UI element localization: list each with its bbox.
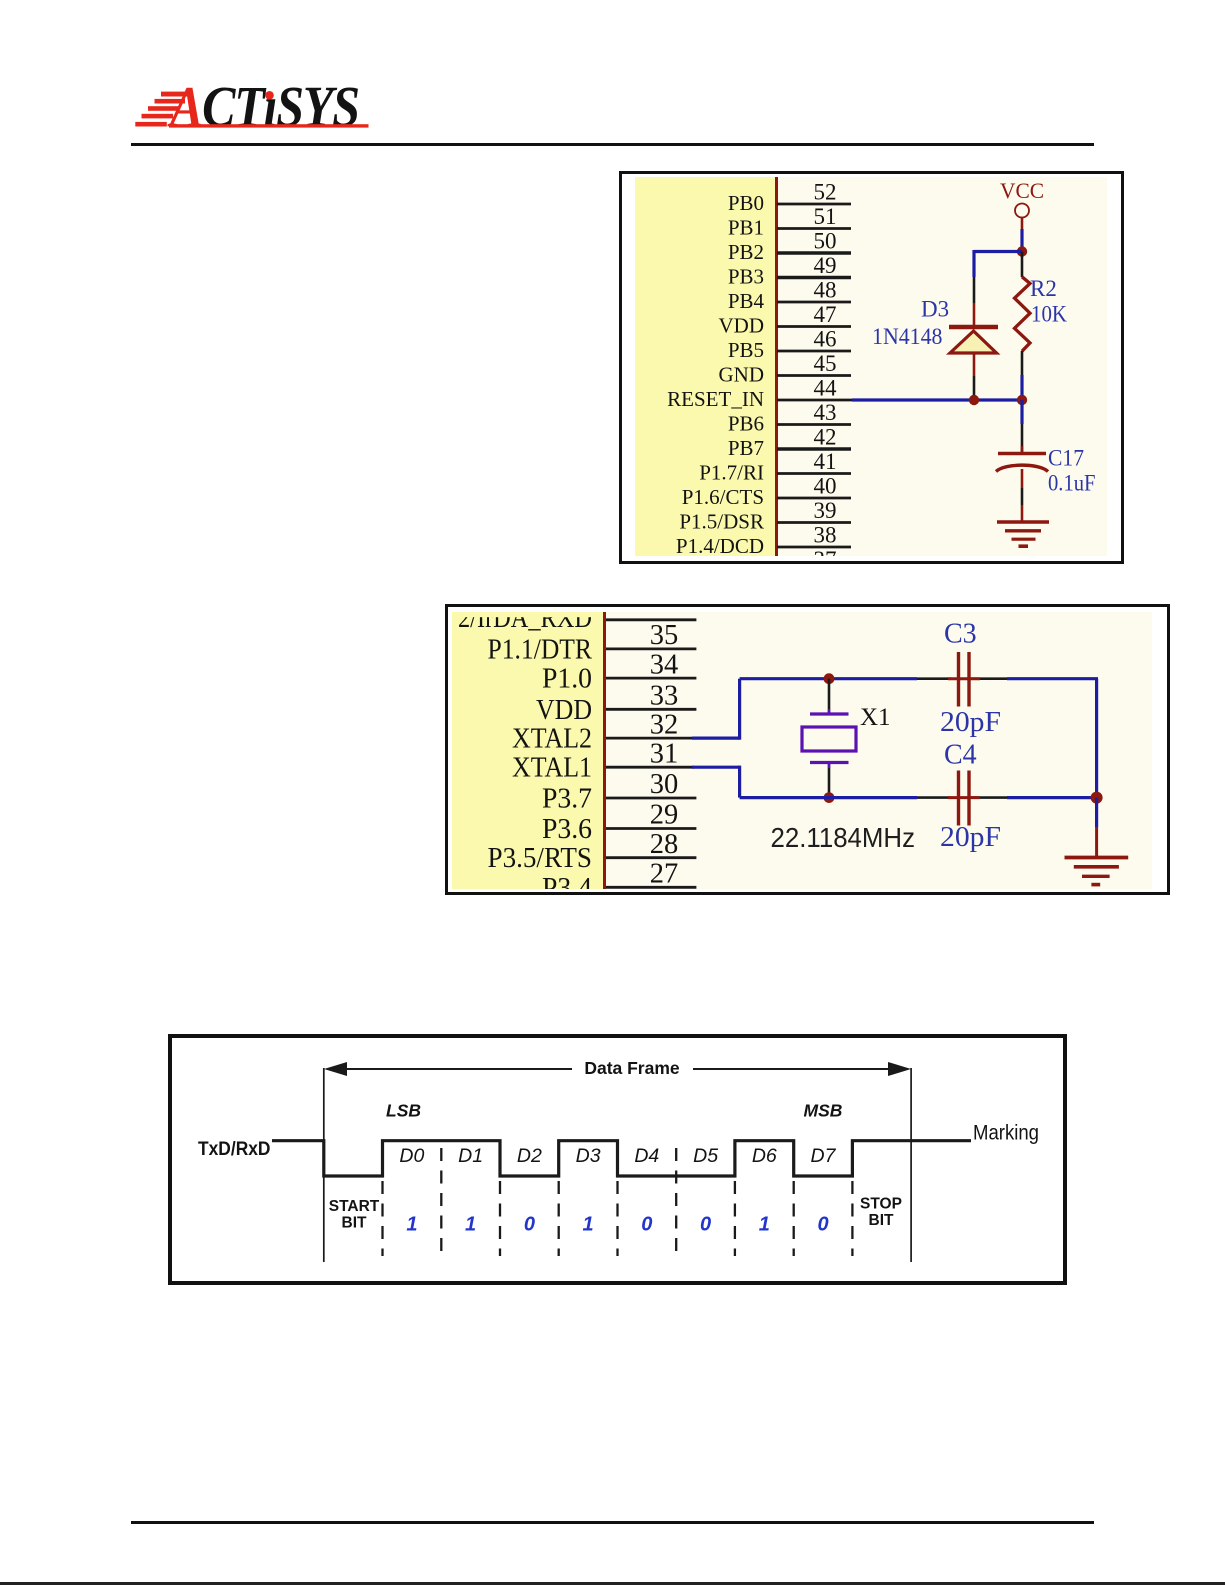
bit boundary dash D4/D5: [675, 1148, 677, 1256]
svg-text:10K: 10K: [1031, 302, 1067, 327]
svg-text:0: 0: [700, 1214, 711, 1236]
svg-text:PB3: PB3: [728, 265, 764, 289]
svg-text:29: 29: [650, 800, 679, 831]
svg-text:PB4: PB4: [728, 289, 765, 313]
footer rule: [131, 1521, 1094, 1524]
svg-text:20pF: 20pF: [940, 707, 1001, 738]
pin P1.6/CTS (40): [682, 474, 851, 510]
svg-text:1: 1: [406, 1214, 417, 1236]
pin P3.4 (27, clipped): [542, 859, 696, 904]
svg-text:C4: C4: [944, 740, 977, 771]
svg-text:0: 0: [641, 1214, 652, 1236]
svg-text:42: 42: [814, 425, 837, 450]
crystal X1 top lead: [828, 679, 831, 714]
svg-text:PB1: PB1: [728, 216, 764, 240]
label STOP BIT: [860, 1196, 902, 1230]
pin P1.2/IrDA_RXD (36, clipped): [458, 603, 696, 634]
wire VCC node to diode branch: [974, 250, 1022, 327]
diode D3 cathode bar: [949, 325, 998, 330]
pin P1.7/RI (41): [699, 449, 851, 485]
svg-text:D0: D0: [399, 1145, 424, 1167]
pin P1.5/DSR (39): [679, 498, 851, 534]
logo stripe 2: [155, 99, 186, 104]
svg-text:46: 46: [814, 327, 837, 352]
svg-text:R2: R2: [1030, 276, 1057, 301]
ground symbol: [997, 522, 1049, 546]
bit boundary dash D7/STOP: [851, 1181, 853, 1256]
pin PB4 (48): [728, 278, 851, 314]
svg-text:50: 50: [814, 229, 837, 254]
svg-text:VDD: VDD: [536, 695, 592, 726]
node junction diode/RESET: [969, 395, 979, 405]
svg-text:38: 38: [814, 523, 837, 548]
label START BIT: [329, 1198, 380, 1232]
bit boundary dash D2/D3: [558, 1181, 560, 1256]
U1 chip body (xtal section): [452, 612, 603, 889]
wire bottom rail to C4: [917, 796, 1097, 799]
wire RESET_IN net (blue): [852, 398, 1022, 401]
logo underline: [169, 124, 369, 127]
svg-text:D2: D2: [517, 1145, 542, 1167]
frame end line: [910, 1068, 912, 1262]
svg-text:D4: D4: [634, 1145, 659, 1167]
data frame arrow: [330, 1068, 902, 1070]
logo stripe 5: [135, 122, 167, 127]
capacitor C17 bottom plate: [996, 465, 1048, 471]
svg-text:C17: C17: [1048, 446, 1084, 471]
chip top clip strip: [452, 612, 603, 617]
svg-text:D3: D3: [921, 297, 949, 322]
svg-text:TxD/RxD: TxD/RxD: [198, 1139, 271, 1160]
svg-text:XTAL2: XTAL2: [512, 724, 592, 755]
wire right rail: [1095, 679, 1098, 798]
pin P1.4/DCD (38): [676, 523, 851, 559]
svg-text:P1.6/CTS: P1.6/CTS: [682, 485, 764, 509]
wire R2 bottom lead: [1021, 351, 1024, 400]
svg-text:X1: X1: [860, 704, 891, 731]
wire C17 to ground: [1021, 469, 1024, 522]
svg-text:ACTıSYS: ACTıSYS: [167, 78, 359, 139]
diode D3 body: [950, 331, 997, 353]
svg-text:51: 51: [814, 204, 837, 229]
pin XTAL1 (31): [512, 738, 694, 783]
pin PB1 (51): [728, 204, 851, 240]
capacitor C3: [948, 652, 980, 707]
svg-text:P1.0: P1.0: [542, 664, 592, 695]
svg-text:XTAL1: XTAL1: [512, 753, 592, 784]
svg-text:C3: C3: [944, 619, 977, 650]
pin P1.0 (34): [542, 649, 696, 694]
wire top rail to C3: [917, 677, 1098, 680]
svg-text:P1.5/DSR: P1.5/DSR: [679, 510, 764, 534]
svg-text:28: 28: [650, 829, 679, 860]
bit boundary dash D0/D1: [440, 1148, 442, 1256]
pin VDD (47): [719, 302, 852, 338]
svg-text:35: 35: [650, 620, 679, 651]
bit boundary dash D5/D6: [734, 1181, 736, 1256]
logo stripe 4: [142, 114, 174, 119]
pin PB3 (49): [728, 253, 851, 289]
power port VCC: [1000, 178, 1044, 218]
pin PB6 (43): [728, 400, 851, 436]
svg-text:P3.6: P3.6: [542, 814, 592, 845]
svg-text:1: 1: [759, 1214, 770, 1236]
svg-text:37: 37: [814, 547, 837, 556]
svg-text:START: START: [329, 1198, 380, 1215]
wire down to C17: [1020, 400, 1023, 452]
svg-text:41: 41: [814, 449, 837, 474]
pin P3.5/RTS (28): [488, 829, 697, 874]
svg-text:30: 30: [650, 769, 679, 800]
arrowhead left: [324, 1062, 347, 1076]
node junction VCC/R2/D3: [1017, 246, 1027, 256]
svg-text:P3.5/RTS: P3.5/RTS: [488, 843, 593, 874]
svg-text:40: 40: [814, 474, 837, 499]
svg-text:1: 1: [465, 1214, 476, 1236]
svg-text:D6: D6: [752, 1145, 777, 1167]
wire XTAL1 net: [692, 766, 917, 798]
svg-text:D3: D3: [576, 1145, 601, 1167]
pin XTAL2 (32): [512, 709, 694, 754]
svg-text:31: 31: [650, 738, 679, 769]
node junction X1 top: [824, 673, 835, 684]
svg-text:44: 44: [814, 376, 838, 401]
bit boundary dash D1/D2: [499, 1181, 501, 1256]
svg-text:BIT: BIT: [342, 1215, 368, 1232]
ground symbol: [1065, 858, 1129, 885]
svg-text:34: 34: [650, 649, 679, 680]
svg-text:PB0: PB0: [728, 191, 764, 215]
svg-text:D5: D5: [693, 1145, 718, 1167]
svg-text:P1.4/DCD: P1.4/DCD: [676, 534, 764, 556]
logo i dot: [265, 91, 274, 100]
svg-text:PB7: PB7: [728, 436, 764, 460]
svg-text:Marking: Marking: [973, 1122, 1039, 1145]
svg-text:52: 52: [814, 180, 837, 205]
pin PB0 (52): [728, 180, 851, 216]
capacitor C4: [948, 771, 980, 826]
page edge rule: [0, 1582, 1225, 1585]
logo stripe 3: [148, 106, 180, 111]
U1 chip body: [635, 177, 776, 556]
bit boundary dash D6/D7: [793, 1181, 795, 1256]
svg-text:LSB: LSB: [386, 1101, 421, 1121]
wire R2 top lead: [1021, 252, 1024, 278]
wire VCC stem: [1021, 218, 1024, 252]
pin PB7 (42): [728, 425, 851, 461]
svg-text:39: 39: [814, 498, 837, 523]
arrowhead right: [888, 1062, 911, 1076]
wire junction to ground: [1095, 798, 1098, 858]
svg-text:Data Frame: Data Frame: [584, 1058, 680, 1078]
svg-text:0.1uF: 0.1uF: [1048, 471, 1096, 496]
svg-text:P3.7: P3.7: [542, 784, 592, 815]
crystal X1 body: [802, 727, 856, 751]
pin PB2 (50): [728, 229, 851, 265]
svg-text:D7: D7: [811, 1145, 837, 1167]
svg-text:MSB: MSB: [804, 1101, 843, 1121]
header rule: [131, 143, 1094, 146]
svg-text:VDD: VDD: [719, 314, 765, 338]
capacitor C17 top plate: [998, 452, 1046, 456]
pin RESET_IN (44): [667, 376, 852, 412]
svg-text:RESET_IN: RESET_IN: [667, 387, 764, 411]
svg-text:PB6: PB6: [728, 412, 764, 436]
svg-text:PB5: PB5: [728, 338, 764, 362]
wire XTAL2 net: [692, 679, 917, 740]
svg-text:D1: D1: [458, 1145, 483, 1167]
node junction right rail / C4 / ground: [1091, 792, 1103, 804]
svg-text:P1.7/RI: P1.7/RI: [699, 461, 764, 485]
capacitor C17 lead tick: [1021, 446, 1024, 453]
pin P3.6 (29): [542, 800, 696, 845]
svg-text:0: 0: [817, 1214, 828, 1236]
crystal X1 top plate: [810, 712, 849, 715]
svg-text:1: 1: [583, 1214, 594, 1236]
bit boundary dash D0: [381, 1181, 383, 1256]
svg-text:GND: GND: [719, 363, 765, 387]
crystal X1 bottom lead: [828, 763, 831, 798]
frame start line: [323, 1068, 325, 1262]
svg-text:48: 48: [814, 278, 837, 303]
pin GND (45): [719, 351, 852, 387]
resistor R2: [1015, 277, 1031, 351]
svg-text:22.1184MHz: 22.1184MHz: [771, 822, 916, 853]
pin P1.1/DTR (35): [488, 620, 697, 665]
svg-text:STOP: STOP: [860, 1196, 902, 1213]
svg-text:1N4148: 1N4148: [872, 324, 943, 349]
svg-text:0: 0: [524, 1214, 535, 1236]
pin P3.7 (30): [542, 769, 696, 814]
svg-text:49: 49: [814, 253, 837, 278]
wire diode anode down: [973, 354, 976, 400]
svg-text:PB2: PB2: [728, 240, 764, 264]
svg-text:32: 32: [650, 709, 679, 740]
svg-text:47: 47: [814, 302, 837, 327]
svg-text:45: 45: [814, 351, 837, 376]
pin VDD (33): [536, 681, 696, 726]
svg-text:33: 33: [650, 681, 679, 712]
node junction X1 bottom: [824, 792, 835, 803]
svg-text:P3.4: P3.4: [542, 873, 592, 889]
pin PB5 (46): [728, 327, 851, 363]
logo stripe 1: [161, 92, 190, 97]
svg-text:43: 43: [814, 400, 837, 425]
bit boundary dash D3/D4: [616, 1181, 618, 1256]
crystal X1 bottom plate: [810, 761, 849, 764]
svg-text:VCC: VCC: [1000, 178, 1044, 203]
svg-text:27: 27: [650, 859, 679, 890]
waveform TxD/RxD: [272, 1141, 971, 1176]
svg-text:BIT: BIT: [869, 1212, 895, 1229]
svg-text:20pF: 20pF: [940, 822, 1001, 853]
node junction RESET/R2/C17: [1017, 395, 1027, 405]
pin 37 (clipped): [814, 547, 837, 572]
svg-text:P1.1/DTR: P1.1/DTR: [488, 634, 593, 665]
